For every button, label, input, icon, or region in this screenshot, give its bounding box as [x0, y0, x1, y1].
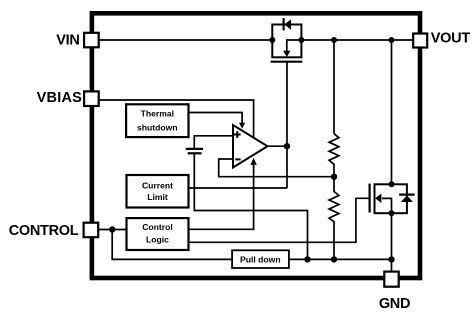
wire: op-amp output to gate node [268, 145, 288, 147]
svg-text:Control: Control [142, 222, 173, 232]
Q1 body diode [284, 19, 291, 30]
arrowhead: thermal shutdown into op-amp [239, 123, 245, 129]
junction: divider tap on VOUT rail [331, 37, 337, 43]
svg-text:Logic: Logic [146, 234, 169, 244]
junction: Q2 bottom terminal [389, 210, 395, 216]
wire: thermal shutdown output to op-amp top edge [189, 113, 243, 124]
wire: control to pull-down rail [112, 230, 232, 260]
wire: feedback from divider to op-amp - input [219, 159, 334, 177]
wire: VIN pin to Q1 source [99, 39, 273, 41]
Q1 drain arrow stem [287, 40, 301, 51]
reference V1 (bandgap) bottom plate [188, 152, 202, 154]
wire: control logic output up into op-amp bottom edge [189, 165, 254, 229]
wire: reference ground return [194, 154, 307, 259]
svg-text:VOUT: VOUT [431, 30, 471, 46]
current limit block [127, 175, 189, 208]
junction: ground rail at GND branch [388, 256, 394, 262]
Q2 gate bar [369, 184, 371, 213]
svg-text:shutdown: shutdown [137, 123, 178, 133]
op-amp + input mark [234, 134, 241, 136]
Q1 gate bar [271, 61, 303, 63]
junction: Q2 top terminal [389, 181, 395, 187]
transistor Q1 (pass FET) body loop [272, 25, 301, 58]
svg-text:VIN: VIN [56, 33, 79, 49]
wire: VOUT branch down to Q2 [391, 40, 393, 184]
arrowhead: control logic into op-amp [250, 158, 256, 165]
svg-text:Pull down: Pull down [240, 254, 281, 264]
svg-text:Limit: Limit [147, 192, 168, 202]
junction: CONTROL input node [109, 226, 115, 232]
svg-text:VBIAS: VBIAS [37, 90, 82, 106]
svg-text:Current: Current [142, 180, 173, 190]
resistor R1 [329, 134, 339, 177]
wire: reference to op-amp + input [194, 136, 233, 148]
wire: current limit output to gate node [189, 187, 288, 189]
junction: Q1 drain at VOUT rail [298, 37, 304, 43]
resistor R2 [329, 177, 339, 260]
op-amp - input mark [235, 158, 240, 160]
junction: feedback node between R1 and R2 [331, 174, 337, 180]
svg-text:GND: GND [379, 296, 410, 312]
Q2 source arrow stem [382, 198, 392, 213]
pin VOUT [413, 34, 427, 48]
wire: CONTROL pin to control logic [99, 229, 127, 231]
junction: R2 bottom on ground rail [331, 256, 337, 262]
pin VIN [84, 33, 99, 48]
pin GND [384, 272, 398, 287]
Q2 source arrowhead [375, 194, 381, 204]
wire: gate vertical from Q1 gate down to current limit tap [286, 62, 288, 188]
wire: VBIAS rail to op-amp top [99, 100, 254, 138]
wire: pull-down rail to GND node [289, 258, 392, 260]
Q1 body diode cathode bar [283, 18, 285, 30]
wire: Q2 to GND pin [391, 213, 393, 273]
svg-text:CONTROL: CONTROL [9, 223, 79, 239]
reference V1 (bandgap) top plate [186, 148, 203, 150]
control logic block [127, 218, 189, 250]
Q2 body diode [401, 195, 413, 202]
transistor Q2 (reverse blocking FET) body loop [375, 184, 407, 213]
outer IC boundary box [92, 13, 420, 278]
pin VBIAS [84, 91, 99, 106]
wire: control logic output 2 to Q2 gate [189, 198, 370, 242]
pin CONTROL [84, 223, 99, 238]
junction: reference return on ground rail [304, 256, 310, 262]
resistor R1 top lead [333, 40, 335, 134]
svg-text:Thermal: Thermal [141, 109, 174, 119]
op-amp U1 [233, 125, 268, 168]
junction: Q1 source at VIN rail [269, 37, 275, 43]
Q2 body diode cathode bar [399, 194, 415, 196]
thermal shutdown block [126, 104, 188, 137]
Q1 drain arrowhead [283, 51, 290, 57]
junction: Q2 branch on VOUT rail [389, 37, 395, 43]
wire: Q1 drain to VOUT pin [301, 39, 413, 41]
pull down block [232, 250, 289, 268]
junction: op-amp output gate node [284, 143, 290, 149]
